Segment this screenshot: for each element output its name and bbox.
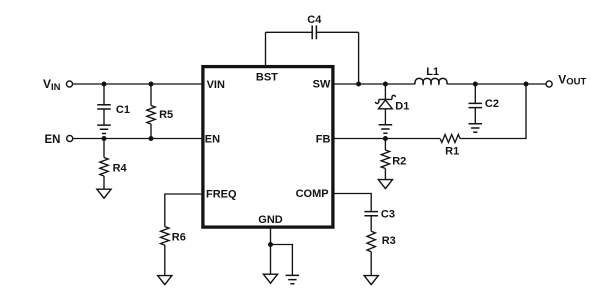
capacitor C2 <box>469 84 499 124</box>
ground (arrow) below R3 <box>364 276 378 285</box>
terminal EN <box>45 134 73 146</box>
junction VIN/C1 <box>102 82 107 87</box>
resistor R3 <box>367 216 396 276</box>
wire FB rail <box>333 138 440 140</box>
svg-text:R2: R2 <box>392 156 406 168</box>
svg-text:L1: L1 <box>426 66 439 78</box>
wire BST riser <box>265 32 267 66</box>
resistor R2 <box>381 139 406 180</box>
inductor L1 <box>415 66 447 84</box>
svg-text:D1: D1 <box>395 100 409 112</box>
capacitor C1 <box>97 84 130 125</box>
ground (3-line) below C1 <box>97 125 111 133</box>
junction SW/C4 <box>356 82 361 87</box>
wire C4 to SW <box>358 32 360 84</box>
svg-text:GND: GND <box>258 214 283 226</box>
terminal VIN <box>43 77 73 93</box>
svg-text:R3: R3 <box>382 235 396 247</box>
svg-text:C2: C2 <box>485 98 499 110</box>
ground (3-line) below D1 <box>379 125 393 133</box>
junction VIN/R5 <box>149 82 154 87</box>
junction EN/R4 <box>102 136 107 141</box>
capacitor C3 <box>364 208 395 220</box>
ground (arrow) below R2 <box>378 180 392 189</box>
svg-text:COMP: COMP <box>296 188 329 200</box>
wire EN rail <box>73 138 203 140</box>
resistor R1 <box>440 135 460 158</box>
resistor R4 <box>100 139 128 190</box>
svg-text:C4: C4 <box>307 14 322 26</box>
wire GND pin net <box>271 228 293 275</box>
junction SW/D1 <box>383 82 388 87</box>
resistor R6 <box>161 227 186 276</box>
svg-text:R1: R1 <box>445 146 459 158</box>
ground (3-line) right of GND arrow <box>286 275 300 283</box>
junction EN/R5 <box>149 136 154 141</box>
svg-text:VIN: VIN <box>207 79 225 91</box>
svg-text:R4: R4 <box>113 162 128 174</box>
ground (arrow) below R6 <box>158 276 172 285</box>
svg-text:R5: R5 <box>159 109 173 121</box>
wire COMP net <box>333 194 371 212</box>
svg-text:C3: C3 <box>381 208 395 220</box>
ground (arrow) below GND pin <box>263 274 277 283</box>
IC U1 regulator body <box>203 67 333 228</box>
capacitor C4 <box>266 14 359 39</box>
ground (arrow) below R4 <box>97 189 111 198</box>
wire VIN input rail <box>73 83 204 85</box>
resistor R5 <box>147 84 173 139</box>
diode D1 (schottky) <box>375 84 409 125</box>
svg-text:R6: R6 <box>172 232 186 244</box>
junction VOUT/R1 branch <box>524 82 529 87</box>
svg-text:BST: BST <box>256 72 278 84</box>
svg-text:FB: FB <box>316 133 331 145</box>
svg-text:FREQ: FREQ <box>206 188 237 200</box>
svg-text:EN: EN <box>205 133 220 145</box>
wire FREQ net <box>165 194 203 227</box>
svg-text:C1: C1 <box>116 104 130 116</box>
svg-text:EN: EN <box>45 134 61 146</box>
wire VOUT feedback branch <box>460 84 526 139</box>
wire SW rail <box>333 83 546 85</box>
junction FB/R2 <box>383 136 388 141</box>
ground (3-line) below C2 <box>469 124 483 132</box>
svg-text:SW: SW <box>313 79 331 91</box>
terminal VOUT <box>546 72 586 87</box>
junction GND branch <box>268 242 273 247</box>
junction L1/C2 <box>473 82 478 87</box>
